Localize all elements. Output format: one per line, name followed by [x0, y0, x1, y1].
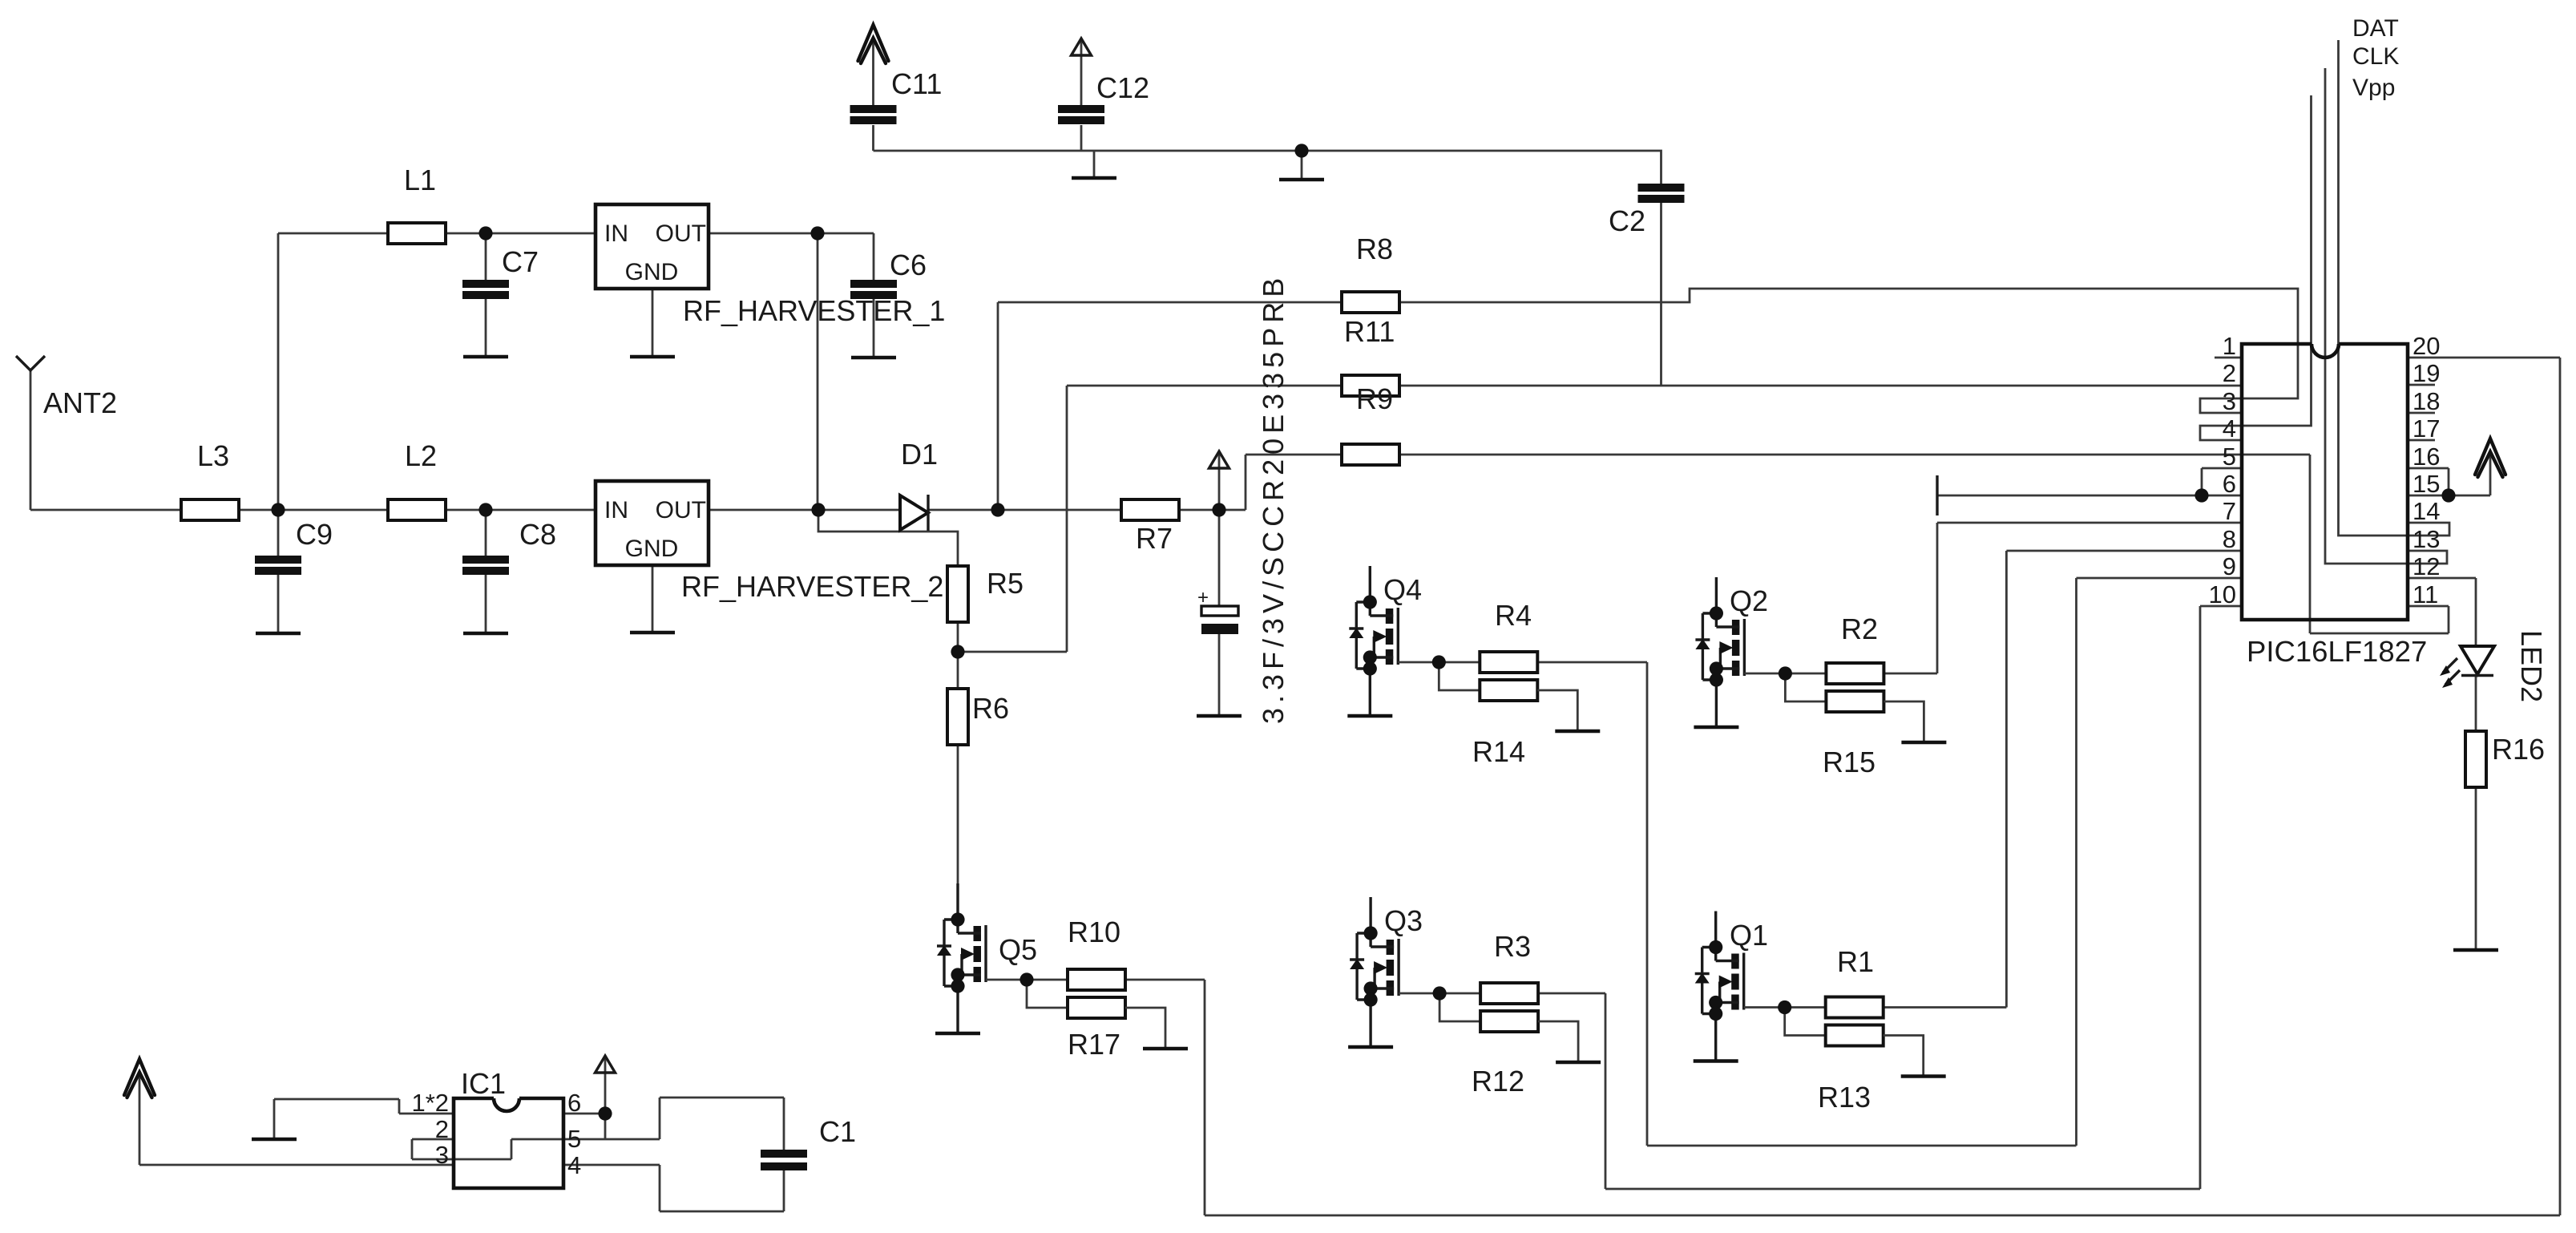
svg-text:9: 9 — [2223, 552, 2236, 580]
svg-text:IN: IN — [604, 220, 628, 247]
svg-text:8: 8 — [2223, 525, 2236, 553]
svg-text:1*2: 1*2 — [411, 1089, 449, 1117]
svg-text:R8: R8 — [1356, 232, 1393, 265]
svg-text:7: 7 — [2223, 497, 2236, 525]
svg-text:Q1: Q1 — [1730, 919, 1768, 952]
svg-text:C12: C12 — [1096, 71, 1149, 104]
svg-text:R6: R6 — [972, 692, 1009, 725]
svg-text:D1: D1 — [901, 438, 938, 471]
svg-text:R7: R7 — [1136, 522, 1173, 555]
svg-text:Q5: Q5 — [999, 933, 1037, 966]
svg-text:16: 16 — [2412, 443, 2440, 471]
svg-text:R13: R13 — [1818, 1081, 1871, 1114]
svg-text:Q4: Q4 — [1383, 573, 1422, 606]
svg-text:4: 4 — [567, 1151, 581, 1179]
svg-text:OUT: OUT — [656, 497, 706, 524]
svg-text:11: 11 — [2412, 580, 2438, 608]
svg-text:R17: R17 — [1068, 1028, 1120, 1061]
svg-text:R16: R16 — [2492, 733, 2545, 766]
svg-text:R2: R2 — [1841, 612, 1878, 645]
svg-text:L1: L1 — [404, 164, 436, 196]
svg-text:14: 14 — [2412, 497, 2440, 525]
svg-text:17: 17 — [2412, 414, 2440, 443]
svg-text:1: 1 — [2223, 332, 2236, 360]
svg-text:C8: C8 — [519, 518, 556, 551]
svg-text:PIC16LF1827: PIC16LF1827 — [2247, 635, 2427, 668]
svg-text:ANT2: ANT2 — [43, 386, 117, 419]
svg-text:C7: C7 — [502, 245, 539, 278]
svg-text:2: 2 — [435, 1115, 449, 1143]
svg-text:R4: R4 — [1495, 599, 1532, 632]
svg-text:3.3F/3V/SCCR20E335PRB: 3.3F/3V/SCCR20E335PRB — [1257, 273, 1290, 724]
svg-text:R9: R9 — [1356, 382, 1393, 415]
svg-text:IN: IN — [604, 497, 628, 524]
svg-text:OUT: OUT — [656, 220, 706, 247]
svg-text:L2: L2 — [405, 439, 437, 472]
svg-text:C9: C9 — [296, 518, 333, 551]
svg-text:4: 4 — [2223, 414, 2236, 443]
svg-text:6: 6 — [567, 1089, 581, 1117]
svg-text:RF_HARVESTER_1: RF_HARVESTER_1 — [683, 294, 945, 327]
svg-text:Vpp: Vpp — [2352, 75, 2395, 101]
svg-text:C1: C1 — [819, 1115, 856, 1148]
svg-text:Q3: Q3 — [1384, 904, 1423, 937]
svg-text:+: + — [1197, 587, 1209, 608]
svg-text:CLK: CLK — [2352, 43, 2399, 70]
svg-text:19: 19 — [2412, 359, 2440, 387]
svg-text:GND: GND — [625, 536, 679, 562]
svg-text:R14: R14 — [1472, 735, 1525, 768]
svg-text:2: 2 — [2223, 359, 2236, 387]
svg-text:6: 6 — [2223, 470, 2236, 498]
svg-text:12: 12 — [2412, 552, 2440, 580]
svg-text:5: 5 — [2223, 443, 2236, 471]
svg-text:13: 13 — [2412, 525, 2440, 553]
svg-text:20: 20 — [2412, 332, 2440, 360]
svg-text:C6: C6 — [890, 249, 927, 281]
svg-text:10: 10 — [2209, 580, 2236, 608]
svg-text:15: 15 — [2412, 470, 2440, 498]
svg-text:Q2: Q2 — [1730, 584, 1768, 617]
svg-text:C2: C2 — [1609, 204, 1645, 237]
svg-text:DAT: DAT — [2352, 15, 2399, 42]
svg-text:R12: R12 — [1472, 1065, 1524, 1098]
svg-text:R1: R1 — [1837, 945, 1874, 978]
svg-text:R3: R3 — [1494, 930, 1531, 963]
svg-text:3: 3 — [2223, 387, 2236, 415]
svg-text:R10: R10 — [1068, 916, 1120, 948]
svg-text:R11: R11 — [1344, 315, 1395, 348]
svg-text:R5: R5 — [987, 567, 1024, 600]
svg-text:5: 5 — [567, 1125, 581, 1153]
svg-text:R15: R15 — [1823, 746, 1875, 778]
svg-text:LED2: LED2 — [2515, 630, 2548, 702]
svg-text:IC1: IC1 — [461, 1067, 506, 1100]
svg-text:GND: GND — [625, 259, 679, 285]
svg-text:3: 3 — [435, 1141, 449, 1169]
svg-text:L3: L3 — [197, 439, 229, 472]
svg-text:C11: C11 — [891, 67, 942, 100]
svg-text:18: 18 — [2412, 387, 2440, 415]
svg-text:RF_HARVESTER_2: RF_HARVESTER_2 — [681, 570, 943, 603]
